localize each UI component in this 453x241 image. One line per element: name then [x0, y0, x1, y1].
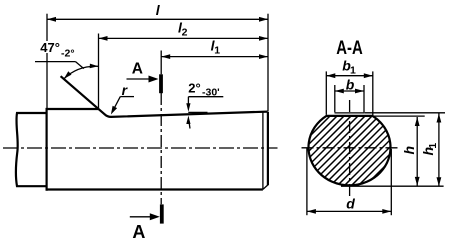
svg-text:b: b: [346, 76, 355, 92]
svg-text:-2°: -2°: [61, 48, 75, 60]
svg-text:A: A: [132, 60, 143, 77]
svg-text:1: 1: [350, 64, 356, 76]
svg-text:h: h: [401, 146, 417, 155]
svg-text:1: 1: [427, 143, 439, 149]
svg-text:2°: 2°: [188, 80, 200, 95]
svg-text:2: 2: [182, 26, 188, 38]
svg-text:d: d: [346, 196, 355, 212]
svg-text:1: 1: [214, 44, 220, 56]
svg-text:A: A: [132, 222, 145, 241]
svg-text:A-A: A-A: [336, 37, 363, 59]
svg-text:47°: 47°: [40, 40, 60, 55]
